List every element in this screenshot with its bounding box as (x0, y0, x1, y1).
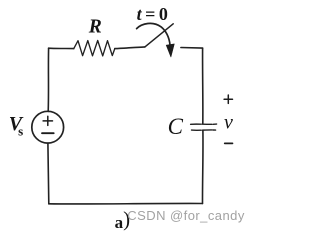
svg-text:R: R (88, 16, 102, 37)
svg-text:v: v (224, 112, 233, 134)
wire top-right horizontal (switch to top-right corner) (181, 47, 203, 50)
svg-text:C: C (168, 114, 184, 139)
source plus sign (43, 116, 52, 125)
svg-text:s: s (18, 123, 23, 138)
switch blade (145, 24, 173, 47)
capacitor plus sign (224, 95, 232, 103)
switch arrowhead (166, 44, 174, 57)
svg-text:CSDN @for_candy: CSDN @for_candy (127, 208, 245, 223)
wire left-bottom vertical (source to bottom-left corner) (47, 143, 50, 204)
wire right vertical upper (top-right corner to capacitor) (202, 48, 204, 123)
wire right vertical lower (capacitor to bottom-right corner) (201, 131, 204, 204)
source minus sign (42, 132, 54, 134)
wire top-left horizontal (top-left corner to resistor) (49, 47, 74, 49)
switch actuation arc (137, 23, 170, 45)
resistor R zigzag (74, 41, 115, 56)
wire left-top vertical (top-left corner down to source) (47, 48, 49, 111)
svg-text:t = 0: t = 0 (137, 4, 168, 24)
wire bottom horizontal (49, 202, 203, 205)
capacitor top plate (191, 123, 217, 125)
capacitor minus sign (225, 142, 233, 144)
capacitor bottom plate (192, 129, 216, 131)
voltage source circle (32, 111, 64, 143)
wire resistor to switch pivot (115, 47, 145, 49)
